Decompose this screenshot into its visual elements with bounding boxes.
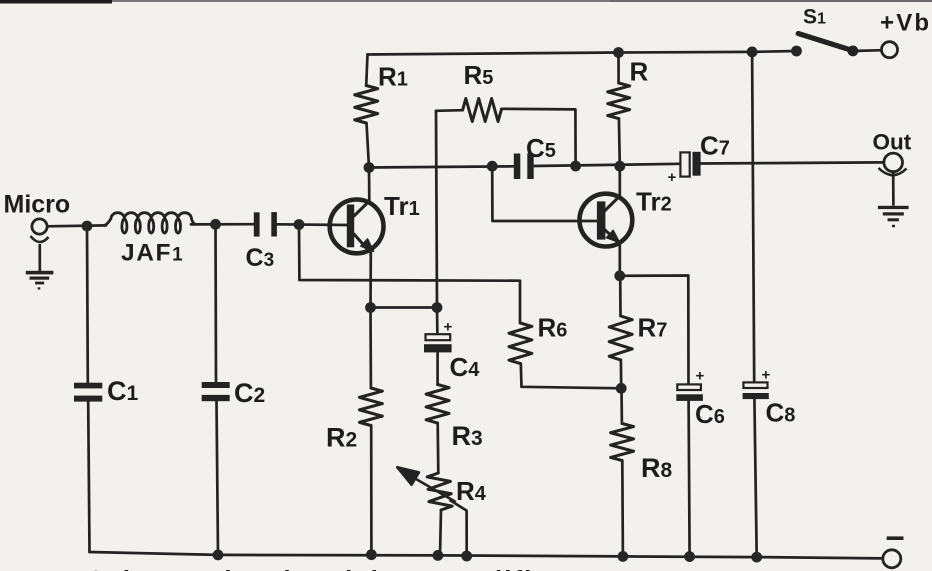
- wire R8 bottom: [621, 461, 624, 557]
- svg-text:C7: C7: [700, 131, 730, 161]
- svg-text:S1: S1: [803, 6, 826, 29]
- resistor R2: [359, 388, 382, 425]
- node top rail / S1: [791, 46, 802, 57]
- terminal +Vb: [882, 42, 898, 58]
- wire C2 bottom: [217, 401, 219, 555]
- wire C6 bottom: [689, 401, 690, 557]
- resistor R: [608, 83, 630, 119]
- svg-text:R6: R6: [538, 313, 568, 343]
- node Tr1 emitter: [365, 302, 376, 313]
- wire Tr2 emitter down: [618, 244, 621, 276]
- node top rail / C8: [747, 47, 758, 58]
- wire C2 column top: [214, 224, 217, 382]
- wire R bottom to collector node: [618, 119, 622, 167]
- svg-text:R4: R4: [456, 476, 487, 506]
- wire C8 bottom: [754, 399, 756, 557]
- transistor Tr2: [580, 194, 633, 247]
- wire S1 to +Vb: [853, 49, 882, 52]
- terminal Out jack: [879, 153, 907, 175]
- wire emitter node to C6: [620, 276, 689, 385]
- svg-text:R7: R7: [638, 313, 668, 343]
- svg-text:R2: R2: [326, 423, 357, 453]
- node R7/R8/R6: [616, 383, 627, 394]
- wire C5 to C7: [534, 164, 681, 166]
- ground (Out): [878, 172, 909, 228]
- ground (Micro): [26, 244, 54, 290]
- capacitor C8 (electrolytic): [743, 367, 771, 400]
- wire R1 bottom to collector node: [367, 123, 370, 201]
- svg-text:JAF1: JAF1: [121, 240, 184, 267]
- svg-text:+: +: [762, 367, 771, 384]
- wire Tr2 collector: [618, 166, 621, 196]
- wire R5 left leg: [436, 109, 463, 112]
- svg-text:R3: R3: [452, 421, 483, 451]
- switch S1: [798, 34, 858, 57]
- transistor Tr1: [330, 200, 384, 254]
- resistor R3: [426, 385, 449, 424]
- node rail C6: [684, 551, 695, 562]
- svg-text:R5: R5: [464, 60, 494, 90]
- capacitor C1: [74, 383, 102, 402]
- node C2 / JAF1: [210, 219, 221, 230]
- wire C7 to Out: [701, 162, 885, 163]
- node C5 right: [570, 161, 581, 172]
- terminal minus: [883, 536, 904, 567]
- svg-text:C4: C4: [450, 352, 481, 382]
- wire R3 to R4: [436, 423, 439, 473]
- wire micro input: [47, 224, 106, 228]
- node Tr1 base: [294, 219, 305, 230]
- wire C8 column upper: [752, 52, 754, 383]
- potentiometer R4: [427, 473, 452, 510]
- node rail C2: [213, 550, 224, 561]
- wire R7 top: [619, 276, 622, 316]
- capacitor C7 (electrolytic): [668, 152, 701, 186]
- capacitor C6 (electrolytic): [676, 368, 704, 401]
- wire C4 to R3: [436, 353, 439, 385]
- node rail R4a: [433, 550, 444, 561]
- capacitor C2: [202, 382, 230, 401]
- svg-text:R8: R8: [641, 453, 673, 483]
- wire coil to C3: [191, 223, 254, 226]
- capacitor C4 (electrolytic): [424, 319, 453, 353]
- wire C4 top: [436, 308, 439, 335]
- svg-text:+: +: [668, 169, 677, 186]
- svg-text:Tr2: Tr2: [636, 187, 672, 217]
- svg-text:C3: C3: [246, 244, 275, 272]
- resistor R7: [609, 316, 632, 360]
- wire R column top: [617, 53, 620, 84]
- capacitor C3: [254, 212, 277, 237]
- wire top +V rail: [368, 51, 797, 55]
- svg-text:+: +: [444, 319, 453, 336]
- node rail R8: [618, 551, 629, 562]
- node Tr2 collector: [614, 161, 625, 172]
- terminal Micro input jack: [31, 219, 49, 242]
- resistor R1: [355, 86, 378, 123]
- node Tr1 collector: [364, 162, 375, 173]
- wire C5 left node to Tr2 base: [492, 166, 598, 221]
- inductor JAF1: [104, 213, 196, 233]
- wire R1 top: [366, 55, 367, 86]
- node C5 left: [487, 161, 498, 172]
- wire C1 bottom: [88, 402, 89, 553]
- wire Tr1 emitter link: [371, 306, 438, 309]
- wire R6 bottom to R7/R8 node: [521, 364, 621, 389]
- svg-text:C5: C5: [526, 133, 556, 163]
- svg-text:Micro: Micro: [4, 191, 71, 219]
- node C4 top: [432, 302, 443, 313]
- svg-text:C1: C1: [107, 376, 139, 406]
- svg-text:R: R: [630, 57, 649, 87]
- wire feedback base to R6: [299, 225, 520, 324]
- node Tr2 emitter: [614, 270, 625, 281]
- wire collector node to C5: [369, 166, 514, 167]
- wire R4 bottom: [440, 510, 441, 555]
- wire R5 right leg: [501, 109, 575, 166]
- wire R2 bottom: [370, 426, 373, 555]
- wire bottom 0V rail: [90, 552, 883, 558]
- potentiometer R4 wiper arrow: [397, 467, 456, 502]
- node C1 / input: [82, 221, 93, 232]
- wire R5 left vertical to emitter node: [436, 111, 437, 308]
- svg-text:C6: C6: [695, 399, 725, 429]
- node rail R2: [366, 549, 377, 560]
- resistor R6: [509, 323, 532, 364]
- node top rail / R: [613, 47, 624, 58]
- capacitor C5: [514, 153, 534, 179]
- resistor R5: [463, 99, 502, 122]
- wire C1 column top: [86, 226, 90, 383]
- node rail R4b: [461, 551, 472, 562]
- svg-text:C8: C8: [766, 398, 796, 428]
- wire R7 bottom: [620, 360, 623, 388]
- svg-text:Tr1: Tr1: [384, 191, 420, 221]
- svg-text:+: +: [696, 368, 705, 385]
- svg-text:Out: Out: [873, 130, 912, 155]
- wire R4 wiper leg: [451, 501, 467, 557]
- svg-text:R1: R1: [378, 62, 408, 92]
- wire R8 top: [620, 388, 623, 423]
- svg-text:C2: C2: [234, 378, 265, 408]
- node rail C8: [751, 552, 762, 563]
- resistor R8: [611, 424, 634, 461]
- svg-text:+Vb: +Vb: [880, 10, 931, 37]
- wire C3 to Tr1 base: [277, 223, 347, 226]
- wire Tr1 emitter down: [369, 253, 372, 388]
